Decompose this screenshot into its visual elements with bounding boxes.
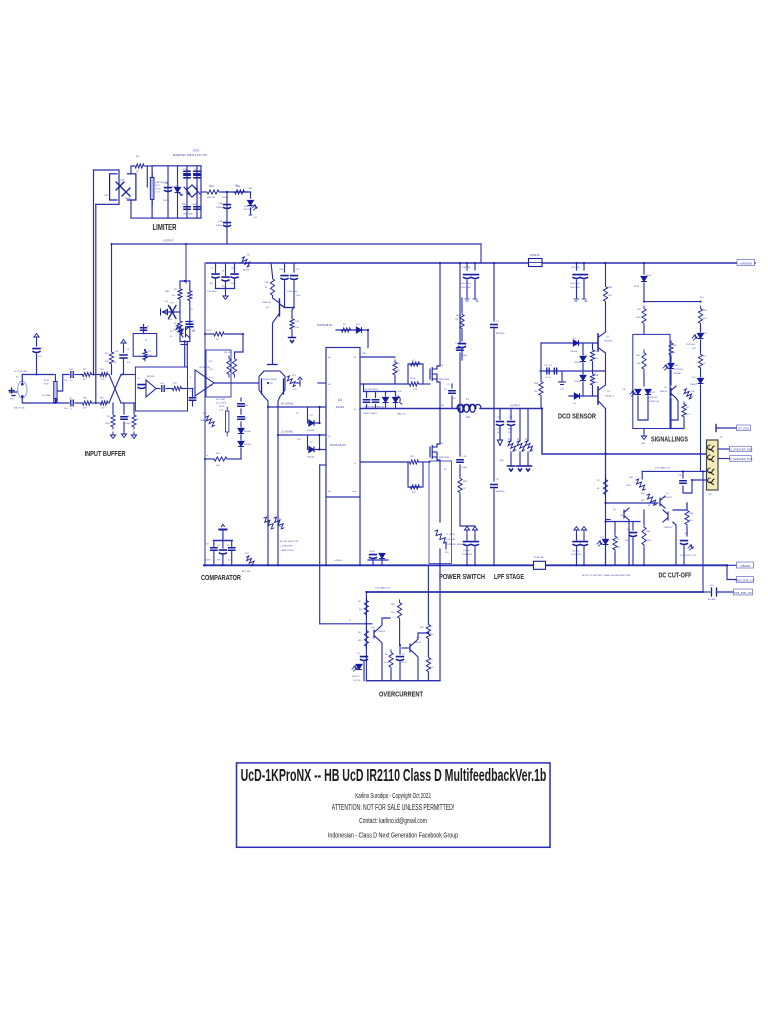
resistor R50 100K	[636, 479, 645, 490]
wire crossover 1	[109, 375, 121, 404]
wire fb tap	[163, 311, 180, 313]
svg-text:P4C: P4C	[10, 399, 14, 401]
svg-text:K: K	[192, 295, 194, 297]
svg-text:7N48: 7N48	[193, 204, 198, 206]
wire rz3 stub	[527, 409, 529, 442]
pot POT2 leads	[54, 375, 57, 404]
svg-text:S10: S10	[710, 585, 714, 587]
capacitor C10b	[459, 344, 466, 348]
transistor Q5 dc	[624, 508, 629, 520]
resistor R75	[408, 460, 420, 464]
polarity arrow C1B lpf	[581, 527, 586, 534]
wire vcc into IC	[367, 330, 369, 348]
wire s10 to label	[717, 591, 734, 593]
svg-text:C4E: C4E	[115, 351, 120, 353]
wire cross to opamp top	[121, 374, 135, 376]
wire c19 down	[683, 480, 692, 493]
wire after L1	[480, 408, 542, 410]
ground C6B	[121, 431, 126, 438]
svg-text:C05: C05	[296, 269, 301, 271]
wire c71 down	[510, 427, 512, 442]
ground plate RZ1	[508, 466, 515, 471]
svg-text:D67: D67	[356, 324, 361, 326]
svg-text:100K: 100K	[626, 485, 631, 487]
wire to LED	[246, 192, 251, 198]
junction dot 33	[474, 262, 476, 264]
wire bs d4	[395, 404, 397, 409]
junction dot 10	[604, 262, 606, 264]
wire feedback rail A	[93, 170, 95, 375]
svg-text:C2A C2B: C2A C2B	[462, 266, 471, 269]
wire M3 source	[437, 460, 440, 522]
wire diff leg R	[278, 397, 280, 408]
svg-text:-1 V: -1 V	[156, 192, 161, 194]
wire neg bus to reg label	[727, 564, 736, 566]
wire cross to opamp bot	[121, 402, 135, 404]
svg-text:NOTE: NOTE	[193, 151, 200, 153]
wire dco left bottom	[540, 398, 542, 409]
svg-text:R4: R4	[703, 356, 706, 358]
svg-text:R6: R6	[105, 353, 109, 355]
capacitor C20 dcp	[681, 541, 688, 545]
svg-text:1K0: 1K0	[149, 355, 152, 357]
resistor R57	[590, 372, 594, 387]
svg-text:C18: C18	[462, 456, 467, 458]
svg-text:2200u: 2200u	[216, 207, 223, 209]
svg-text:R2: R2	[397, 363, 400, 365]
svg-text:2N5407C: 2N5407C	[262, 302, 272, 304]
capacitor C2B	[224, 223, 231, 227]
wire opto bottom	[130, 200, 132, 218]
transistor Q10	[374, 628, 379, 640]
svg-text:3K0: 3K0	[517, 439, 520, 441]
junction dot 38	[466, 564, 468, 566]
capacitor C6A	[120, 355, 127, 358]
capacitor C6B set	[238, 404, 244, 406]
trim box	[133, 334, 157, 357]
svg-text:R60: R60	[216, 453, 221, 455]
svg-text:R6: R6	[358, 601, 361, 603]
resistor R5P parallel	[409, 362, 421, 366]
svg-text:TP0: TP0	[217, 560, 222, 562]
resistor R47 sig	[682, 402, 686, 419]
junction limiter out	[226, 191, 228, 193]
wire c2g down	[583, 280, 585, 298]
resistor R50 100K set	[206, 416, 215, 427]
trimmer RV1 leads	[151, 172, 153, 205]
wire dco gnd stub	[561, 371, 563, 381]
svg-text:3W: 3W	[512, 451, 515, 453]
transistor Q6 base bar	[597, 334, 599, 351]
svg-text:TP2: TP2	[560, 389, 565, 391]
svg-text:C1A C4B C2B D4: C1A C4B C2B D4	[363, 388, 378, 391]
capacitor C12	[449, 391, 455, 393]
led terminal mark	[249, 214, 252, 216]
svg-text:R6, R6, DUB2 T80: R6, R6, DUB2 T80	[280, 541, 299, 543]
svg-text:2N5015: 2N5015	[378, 631, 386, 633]
wire r5m down	[686, 527, 688, 536]
ground plate RZ3	[525, 466, 532, 471]
ground comparator plate	[219, 529, 226, 531]
opto bracket right	[128, 174, 136, 200]
wire M2 source	[437, 382, 440, 409]
svg-text:C5A: C5A	[279, 268, 284, 271]
svg-text:R6: R6	[174, 289, 177, 291]
svg-text:BC: BC	[648, 505, 651, 507]
svg-text:2200u 100v: 2200u 100v	[287, 291, 297, 293]
wire limiter top jog	[94, 170, 120, 204]
svg-text:ZENER D2A, D2B IN 1.5-3V VCC: ZENER D2A, D2B IN 1.5-3V VCC	[173, 154, 208, 157]
svg-text:7N4148: 7N4148	[307, 457, 315, 459]
svg-text:R1B: R1B	[209, 385, 214, 387]
zener ZD2 dco	[580, 375, 586, 380]
wire c10 down	[461, 349, 463, 360]
transistor Q3 base bar	[597, 387, 599, 404]
svg-text:DCO SET: DCO SET	[216, 399, 226, 401]
wire supply bus	[207, 262, 756, 264]
svg-text:ZD13: ZD13	[650, 392, 656, 394]
svg-text:PCB_BAB_12V: PCB_BAB_12V	[655, 467, 671, 470]
svg-text:PCB_BAB_12V: PCB_BAB_12V	[734, 591, 752, 595]
svg-text:R66: R66	[83, 398, 88, 400]
wire Q5 emitter	[273, 313, 280, 361]
junction dot 23	[399, 644, 401, 646]
resistor R7 52K	[270, 276, 274, 298]
wire zobel rail 4	[460, 495, 475, 526]
op-amp U1	[146, 380, 156, 397]
wire r6t to r63	[93, 374, 99, 376]
signallings box	[633, 334, 670, 428]
svg-text:5CP: 5CP	[692, 348, 697, 350]
resistor R5M 680	[685, 508, 689, 527]
wire mws drop	[727, 565, 736, 579]
wire r73 down	[390, 670, 392, 681]
wire pcb bus	[366, 591, 703, 593]
capacitor C16	[472, 542, 479, 546]
cap terminal marks	[465, 299, 478, 301]
svg-text:R2: R2	[430, 626, 433, 628]
wire r46 down	[670, 357, 672, 362]
capacitor C2G	[581, 275, 588, 279]
wire R13 lead	[292, 308, 294, 318]
svg-text:1u 1u: 1u 1u	[545, 377, 550, 379]
wire zener bottom	[582, 382, 584, 396]
junction dot 8	[493, 262, 495, 264]
junction dot 29	[36, 374, 38, 376]
wire c37 stub	[36, 340, 38, 346]
resistor R6A	[134, 164, 146, 168]
wire oc feed riser	[319, 465, 321, 624]
svg-text:MC: MC	[397, 370, 401, 372]
wire c33 down	[363, 662, 365, 681]
svg-text:C4: C4	[147, 326, 150, 328]
svg-text:R48: R48	[636, 355, 641, 357]
wire R30 to input	[111, 366, 113, 375]
wire opto bottom to box	[131, 217, 152, 219]
svg-text:390K: 390K	[636, 317, 641, 319]
opto bracket left	[110, 174, 117, 200]
wire to M2 gate	[420, 383, 430, 385]
wire HO down	[394, 377, 396, 384]
wire cap d2	[225, 263, 227, 276]
wire comp c1 down	[213, 552, 215, 566]
resistor R5B 15K	[603, 284, 607, 304]
wire c19 stub	[682, 471, 684, 478]
led arrows D13	[692, 335, 697, 340]
wire oc left rail	[365, 592, 367, 681]
wire r20k right	[229, 458, 241, 460]
svg-text:TP1: TP1	[170, 303, 175, 305]
svg-text:Q9: Q9	[664, 387, 668, 389]
resistor R52	[642, 306, 646, 326]
svg-text:Vss: Vss	[328, 491, 331, 493]
svg-text:1K: 1K	[703, 363, 706, 365]
wire c1b up	[632, 522, 634, 531]
resistor R5B dco	[539, 379, 543, 398]
current sensor annotation box	[429, 461, 452, 564]
resistor R49 1K	[698, 352, 702, 370]
wire dset w2	[240, 422, 242, 427]
transistor Q8 dc	[663, 510, 668, 522]
wire fb left mid	[179, 301, 181, 319]
svg-text:Q7: Q7	[666, 493, 670, 495]
svg-text:D4: D4	[573, 403, 576, 405]
zener D2A	[175, 187, 181, 192]
svg-text:2N6015: 2N6015	[660, 391, 668, 393]
led OCP	[356, 664, 362, 669]
capacitor C17	[554, 368, 556, 374]
capacitor C63	[71, 372, 73, 378]
svg-text:Vs: Vs	[354, 409, 356, 411]
label -REG8000	[737, 562, 754, 568]
svg-text:R5B: R5B	[608, 287, 613, 289]
capacitor C1B	[222, 277, 229, 281]
svg-text:C9: C9	[496, 479, 500, 481]
wire ps caps stub1	[372, 558, 374, 565]
fuse S10 bypass	[712, 588, 717, 596]
transistor Q2B	[192, 185, 197, 197]
capacitor C10b	[184, 175, 190, 177]
svg-text:MKT: MKT	[500, 460, 505, 462]
trimmer RV1 bar	[150, 178, 154, 200]
svg-text:57LP690C: 57LP690C	[674, 369, 684, 371]
wire c34 down	[399, 662, 401, 681]
wire output bus drop left	[111, 244, 113, 350]
wire fb top bracket	[180, 280, 190, 282]
wire OT_GND	[716, 427, 736, 429]
resistor R70 4K7	[364, 598, 368, 617]
junction dot 3	[267, 406, 269, 408]
svg-text:57LP690C: 57LP690C	[648, 397, 658, 399]
junction D7 mid	[318, 448, 320, 450]
wire dco mid	[540, 370, 605, 372]
svg-text:2N5401C: 2N5401C	[604, 341, 613, 343]
diode X tap	[169, 306, 177, 319]
wire M2 drain	[437, 263, 440, 366]
ground C37	[34, 334, 39, 341]
svg-text:14KB 10: 14KB 10	[352, 676, 359, 678]
junction dot 19	[111, 243, 113, 245]
svg-text:+UPD8000: +UPD8000	[739, 261, 752, 265]
wire q13 emitter	[415, 654, 418, 681]
wire q5dc down	[628, 520, 630, 565]
wire to junction	[221, 191, 247, 193]
input plus marks	[9, 388, 15, 396]
svg-text:MKP800: MKP800	[496, 491, 505, 493]
svg-text:100K: 100K	[646, 540, 651, 542]
wire d16 down	[670, 370, 672, 385]
wire lower pin 2	[692, 479, 707, 481]
svg-text:P2110: P2110	[336, 405, 345, 409]
svg-text:5K: 5K	[597, 488, 600, 490]
wire cap C4A1 lead	[167, 166, 169, 218]
svg-text:+5B2000: +5B2000	[740, 564, 751, 568]
svg-text:U2: U2	[338, 398, 342, 402]
svg-text:1K: 1K	[463, 488, 466, 490]
wire q78 join	[673, 503, 687, 510]
terminal pin 3	[708, 468, 714, 475]
svg-text:+4/3000: +4/3000	[334, 560, 342, 562]
wire LED down	[250, 208, 252, 214]
junction dot 15	[605, 502, 607, 504]
capacitor C34	[397, 657, 404, 661]
wire C05 stub	[293, 263, 295, 272]
svg-text:PL2K: PL2K	[44, 384, 50, 386]
svg-text:ZD10: ZD10	[634, 286, 640, 288]
wire c64 to r66	[75, 402, 81, 404]
junction dot 30	[576, 262, 578, 264]
wire diff leg L	[264, 397, 268, 408]
wire ps caps stub2	[381, 558, 383, 565]
wire u1 out	[156, 388, 160, 390]
wire bs stub4	[395, 392, 397, 397]
capacitor C9H	[212, 274, 219, 278]
junction D3 mid	[318, 422, 320, 424]
wire OT_GND tick	[715, 425, 717, 432]
capacitor C7	[138, 385, 145, 389]
svg-text:D1: D1	[310, 415, 313, 417]
zener ZD1 dco	[580, 356, 586, 361]
capacitor C1E	[231, 274, 238, 278]
junction dot 43	[643, 564, 645, 566]
speaker terminal block	[707, 440, 719, 490]
wire dset stack top	[240, 398, 242, 401]
capacitor C40	[370, 555, 377, 559]
junction dot 16	[605, 521, 607, 523]
wire input top	[22, 375, 54, 383]
resistor RZ2	[517, 441, 525, 451]
junction dot 20	[226, 191, 228, 193]
svg-text:DCO_HYS: DCO_HYS	[216, 403, 227, 405]
mosfet M2 IRFP250N	[430, 366, 437, 382]
svg-text:Q4: Q4	[606, 336, 610, 338]
ground plate R13	[289, 338, 296, 343]
ground RG1	[110, 432, 115, 439]
wire c42 up	[192, 389, 194, 397]
svg-text:R6B: R6B	[165, 291, 170, 293]
wire gate loop	[408, 364, 423, 384]
wire c2f down	[576, 280, 578, 298]
svg-text:R67: R67	[100, 398, 105, 400]
capacitor C18	[457, 460, 463, 462]
wire C05 lead down	[293, 281, 295, 308]
wire fb left stub	[179, 281, 181, 287]
wire zobel rail	[459, 263, 461, 344]
svg-text:R6: R6	[385, 654, 388, 656]
svg-text:R3L_R7 NC: R3L_R7 NC	[14, 408, 25, 410]
svg-text:100u: 100u	[625, 540, 629, 542]
diode D8	[383, 397, 389, 402]
svg-text:TPj: TPj	[222, 286, 226, 288]
svg-text:C9: C9	[496, 321, 500, 323]
wire U6 out	[214, 382, 258, 384]
junction dot 48	[325, 564, 327, 566]
junction vcc	[367, 329, 369, 331]
diode D7	[309, 447, 314, 453]
wire diff feed	[272, 361, 274, 365]
capacitor C2D	[472, 275, 479, 279]
svg-text:ZD10: ZD10	[646, 275, 652, 277]
wire d13 down	[700, 340, 702, 352]
svg-text:TB1: TB1	[708, 494, 713, 496]
svg-text:R6: R6	[107, 416, 110, 418]
wire zobel stub2	[510, 409, 512, 420]
resistor R6 ACPW on bus	[242, 257, 250, 267]
wire s10 stub	[703, 591, 710, 593]
svg-text:7N48 7N48: 7N48 7N48	[183, 214, 193, 216]
wire c1a bottom	[576, 547, 578, 565]
svg-text:3K3: 3K3	[703, 318, 707, 320]
wire LO pin	[360, 461, 408, 463]
wire oc far right rail	[439, 565, 441, 680]
wire zobel stub1	[499, 409, 501, 420]
wire Q5 rail	[271, 263, 273, 276]
svg-text:HIL SIGNAL: HIL SIGNAL	[281, 403, 294, 406]
junction dot 12	[643, 301, 645, 303]
svg-text:SIGNALLINGS: SIGNALLINGS	[651, 435, 688, 444]
resistor R64 3K0	[647, 494, 656, 505]
svg-text:27n: 27n	[453, 398, 456, 400]
svg-text:+LH: +LH	[253, 217, 257, 219]
label PCB_BAB_12V box	[734, 589, 753, 595]
svg-text:C2B: C2B	[218, 221, 223, 223]
wire rz2 down	[519, 452, 521, 466]
svg-text:GND: GND	[641, 443, 646, 445]
wire cap d1	[215, 263, 217, 273]
junction dot 28	[121, 374, 123, 376]
svg-text:LIL SIGNAL: LIL SIGNAL	[281, 431, 294, 434]
wire q10 emitter	[379, 640, 382, 681]
wire q1 bottom bar	[181, 344, 187, 346]
wire c6a stub	[123, 346, 125, 353]
ground signallings	[641, 433, 646, 440]
svg-text:7N4148: 7N4148	[570, 351, 578, 353]
wire supply caps b1	[466, 280, 468, 298]
svg-text:Z1: Z1	[585, 356, 587, 358]
resistor RZ1	[508, 441, 516, 451]
wire spk neg	[718, 448, 729, 450]
wire c1k down	[499, 427, 501, 441]
svg-text:C19: C19	[678, 475, 683, 477]
svg-text:R60: R60	[391, 604, 396, 606]
junction dot 50	[439, 564, 441, 566]
wire D3 loop left	[307, 407, 309, 423]
junction dot 21	[365, 591, 367, 593]
svg-text:C8: C8	[190, 309, 194, 311]
wire q8 emitter down	[673, 522, 676, 565]
wire dc mid	[606, 521, 641, 523]
svg-text:4u7: 4u7	[38, 356, 42, 358]
